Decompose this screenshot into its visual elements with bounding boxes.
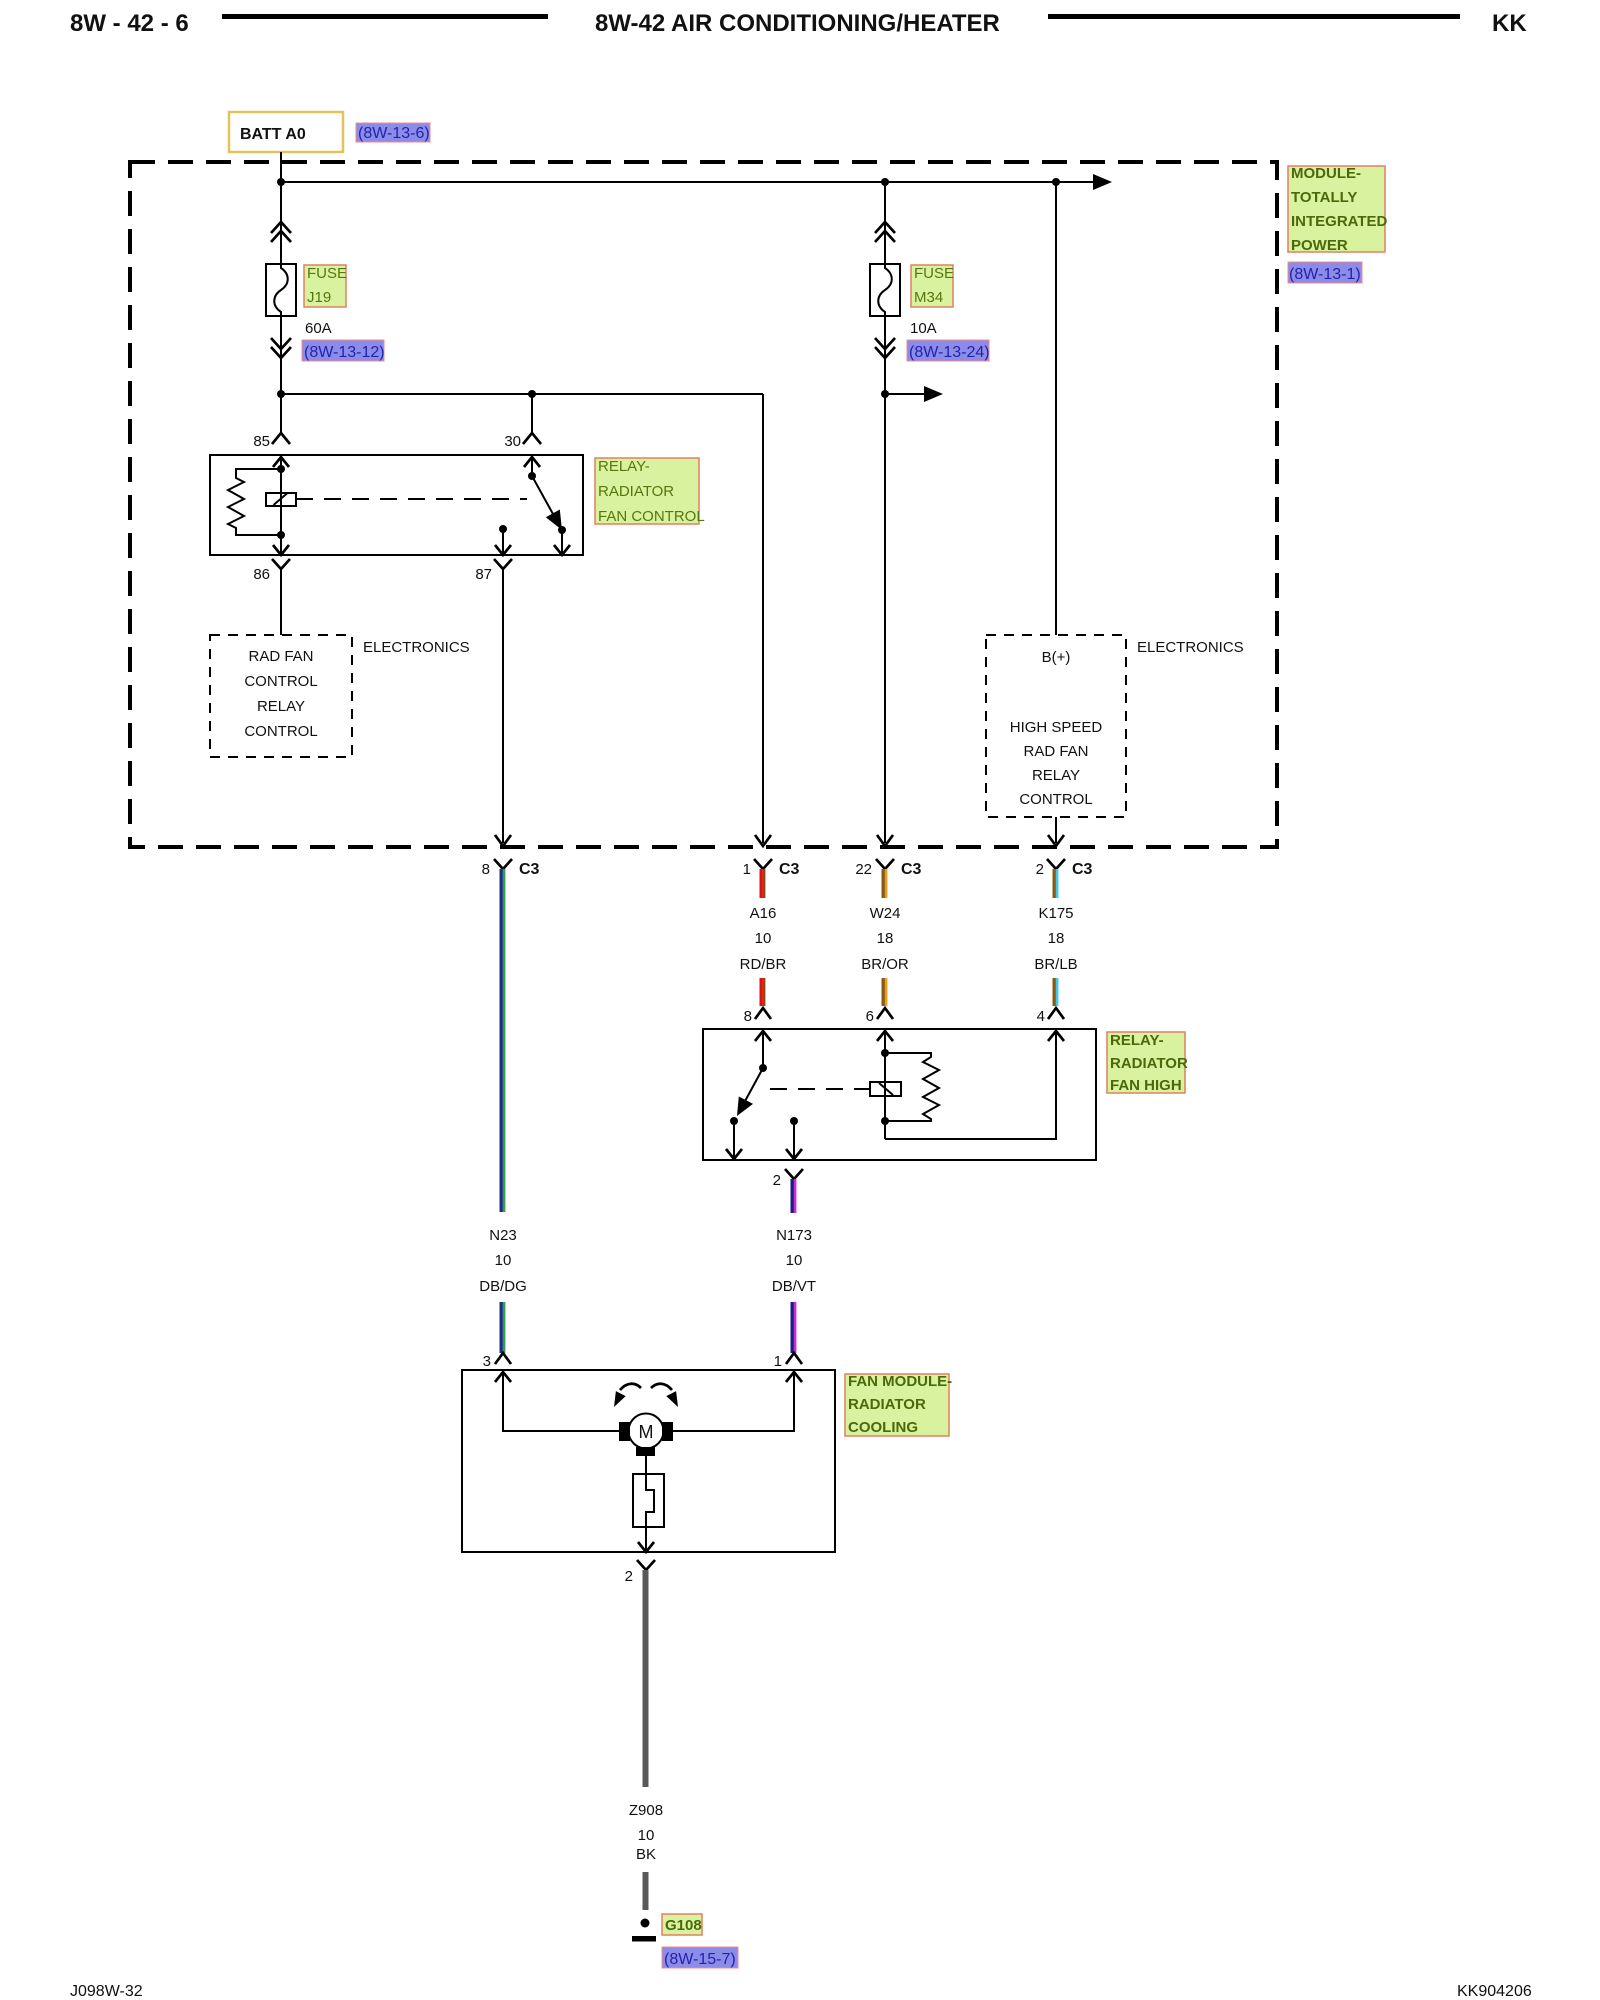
svg-text:TOTALLY: TOTALLY [1291,189,1357,206]
svg-text:INTEGRATED: INTEGRATED [1291,213,1388,230]
svg-text:RADIATOR: RADIATOR [1110,1055,1188,1072]
svg-text:RD/BR: RD/BR [740,956,787,973]
svg-text:87: 87 [475,566,492,583]
svg-text:10: 10 [755,930,772,947]
svg-text:RELAY-: RELAY- [598,458,650,475]
svg-text:M34: M34 [914,289,943,306]
svg-text:2: 2 [625,1568,633,1585]
svg-text:FUSE: FUSE [307,265,347,282]
svg-text:POWER: POWER [1291,237,1348,254]
svg-text:(8W-15-7): (8W-15-7) [664,1951,736,1968]
svg-text:1: 1 [743,861,751,878]
svg-text:BK: BK [636,1846,656,1863]
svg-text:(8W-13-1): (8W-13-1) [1289,266,1361,283]
svg-text:M: M [639,1422,654,1442]
svg-text:22: 22 [855,861,872,878]
svg-text:8W-42 AIR CONDITIONING/HEATER: 8W-42 AIR CONDITIONING/HEATER [595,10,1000,37]
svg-text:MODULE-: MODULE- [1291,165,1361,182]
svg-text:FUSE: FUSE [914,265,954,282]
svg-text:85: 85 [253,433,270,450]
svg-text:30: 30 [504,433,521,450]
svg-text:HIGH SPEED: HIGH SPEED [1010,719,1103,736]
svg-text:CONTROL: CONTROL [244,673,317,690]
svg-text:B(+): B(+) [1042,649,1071,666]
svg-text:86: 86 [253,566,270,583]
svg-text:C3: C3 [901,861,922,878]
svg-text:3: 3 [483,1353,491,1370]
svg-text:BR/OR: BR/OR [861,956,909,973]
svg-text:BATT A0: BATT A0 [240,126,306,143]
svg-text:2: 2 [773,1172,781,1189]
svg-text:(8W-13-24): (8W-13-24) [909,344,990,361]
svg-text:10A: 10A [910,320,937,337]
svg-text:J19: J19 [307,289,331,306]
svg-text:ELECTRONICS: ELECTRONICS [1137,639,1244,656]
svg-text:N173: N173 [776,1227,812,1244]
svg-text:COOLING: COOLING [848,1419,918,1436]
svg-text:KK904206: KK904206 [1457,1983,1532,2000]
svg-text:8: 8 [482,861,490,878]
svg-text:4: 4 [1037,1008,1045,1025]
svg-text:8W - 42 - 6: 8W - 42 - 6 [70,10,189,37]
svg-text:C3: C3 [519,861,540,878]
svg-text:G108: G108 [665,1917,702,1934]
svg-text:ELECTRONICS: ELECTRONICS [363,639,470,656]
svg-text:DB/VT: DB/VT [772,1278,816,1295]
svg-text:18: 18 [877,930,894,947]
svg-text:RAD FAN: RAD FAN [248,648,313,665]
svg-text:18: 18 [1048,930,1065,947]
svg-text:8: 8 [744,1008,752,1025]
svg-text:RADIATOR: RADIATOR [598,483,674,500]
svg-text:J098W-32: J098W-32 [70,1983,143,2000]
svg-text:KK: KK [1492,10,1527,37]
svg-text:C3: C3 [1072,861,1093,878]
svg-text:CONTROL: CONTROL [244,723,317,740]
svg-text:C3: C3 [779,861,800,878]
svg-text:1: 1 [774,1353,782,1370]
svg-text:6: 6 [866,1008,874,1025]
svg-text:10: 10 [638,1827,655,1844]
svg-text:RELAY: RELAY [1032,767,1080,784]
svg-text:RELAY-: RELAY- [1110,1032,1164,1049]
svg-text:RELAY: RELAY [257,698,305,715]
svg-text:(8W-13-6): (8W-13-6) [358,125,430,142]
svg-text:RADIATOR: RADIATOR [848,1396,926,1413]
svg-text:10: 10 [786,1252,803,1269]
svg-text:60A: 60A [305,320,332,337]
svg-text:A16: A16 [750,905,777,922]
svg-text:FAN MODULE-: FAN MODULE- [848,1373,952,1390]
svg-text:RAD FAN: RAD FAN [1023,743,1088,760]
svg-text:W24: W24 [870,905,901,922]
svg-text:10: 10 [495,1252,512,1269]
svg-text:FAN CONTROL: FAN CONTROL [598,508,705,525]
svg-text:K175: K175 [1038,905,1073,922]
svg-text:Z908: Z908 [629,1802,663,1819]
svg-text:BR/LB: BR/LB [1034,956,1077,973]
svg-text:(8W-13-12): (8W-13-12) [304,344,385,361]
svg-text:DB/DG: DB/DG [479,1278,527,1295]
svg-text:N23: N23 [489,1227,517,1244]
svg-text:2: 2 [1036,861,1044,878]
svg-text:CONTROL: CONTROL [1019,791,1092,808]
svg-text:FAN HIGH: FAN HIGH [1110,1077,1182,1094]
